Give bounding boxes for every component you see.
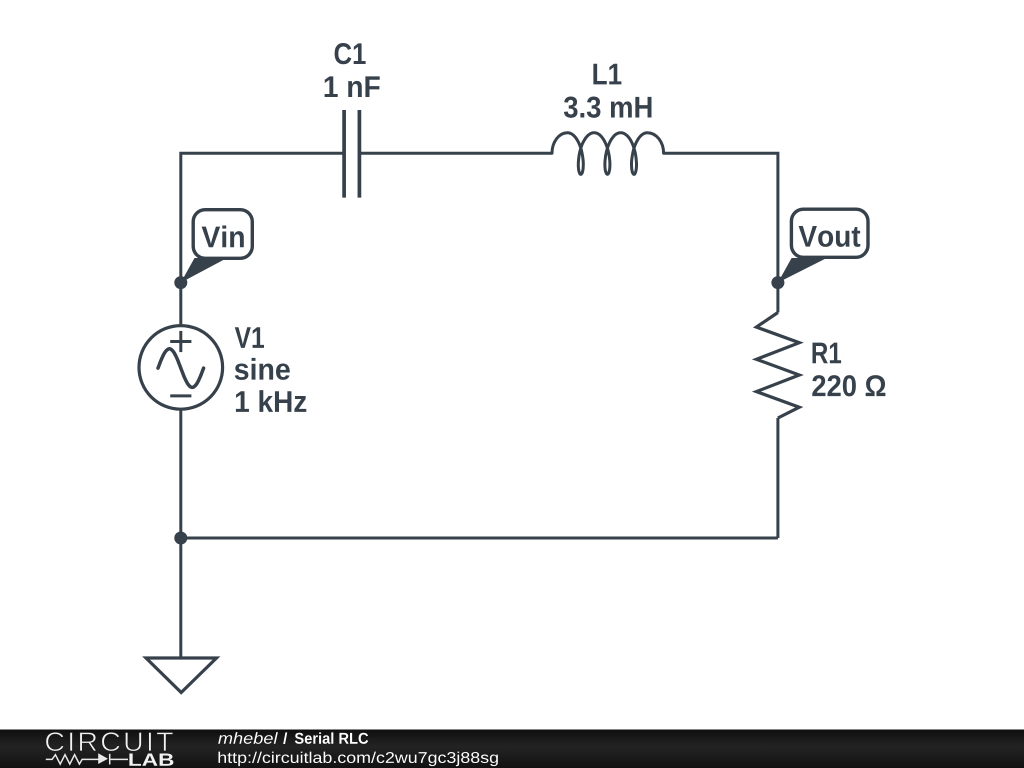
logo diode triangle	[98, 753, 108, 764]
label R1	[812, 343, 841, 364]
logo CIRCUIT	[46, 732, 173, 751]
node flag Vout box	[791, 209, 868, 257]
inductor L1	[552, 133, 664, 175]
label 220 ohm	[812, 375, 885, 396]
label C1	[335, 43, 366, 64]
resistor R1	[756, 313, 799, 419]
capacitor C1	[344, 110, 359, 198]
label V1	[235, 327, 264, 348]
V1 circle	[139, 326, 223, 410]
wire: ground stem	[179, 538, 182, 657]
wire: capacitor to inductor	[360, 152, 553, 155]
logo LAB	[129, 754, 173, 766]
node Vin junction dot	[174, 276, 187, 289]
node Vout junction dot	[771, 276, 784, 289]
wire: bottom run	[181, 537, 778, 540]
node flag Vin box	[193, 210, 252, 259]
node flag Vout text	[799, 226, 861, 247]
label 3.3 mH	[564, 97, 652, 118]
label 1 kHz	[236, 390, 306, 412]
V1 minus sign	[170, 394, 191, 397]
V1 plus sign	[170, 340, 191, 343]
node flag Vout tail	[778, 258, 827, 283]
footer title Serial RLC	[295, 732, 368, 744]
footer slash	[283, 732, 287, 744]
footer url	[218, 752, 497, 767]
logo resistor-diode glyph	[46, 754, 128, 765]
node flag Vin text	[202, 226, 244, 248]
V1 sine glyph	[158, 349, 204, 388]
wire: resistor bottom lead	[776, 418, 779, 538]
footer bar	[0, 730, 1024, 768]
voltage source V1	[139, 326, 223, 410]
label L1	[593, 64, 621, 85]
label sine	[235, 358, 290, 380]
wire: left vertical run and top run to capacitor	[181, 153, 344, 325]
footer author mhebel	[218, 732, 278, 744]
ground triangle	[146, 658, 217, 693]
wire: inductor to top-right corner down to resistor	[664, 153, 778, 312]
wire: V1 bottom lead	[179, 409, 182, 538]
label 1 nF	[325, 76, 380, 97]
ground junction dot	[174, 532, 187, 545]
node flag Vin tail	[181, 258, 227, 283]
